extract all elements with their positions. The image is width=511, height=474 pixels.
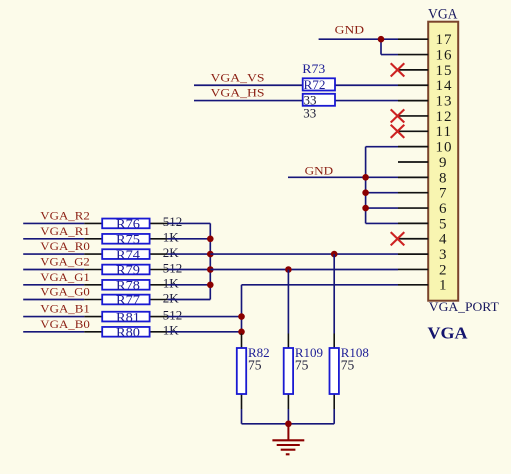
junction ground rail [285,421,292,428]
junction pin 7 [362,189,369,196]
wire R77 output [168,299,211,301]
pin 15 [398,63,453,79]
resistor R108 75 [330,334,369,410]
pin 4 [398,232,447,248]
svg-text:15: 15 [436,63,453,79]
wire R81 output [168,316,242,318]
junction G2 [207,266,214,273]
svg-text:R80: R80 [116,325,140,340]
svg-text:VGA_R2: VGA_R2 [40,208,90,222]
svg-text:75: 75 [295,357,309,372]
no-connect X pin 15 [391,63,405,76]
svg-text:14: 14 [436,78,453,94]
svg-text:VGA_R1: VGA_R1 [40,224,90,238]
pin 3 [398,247,447,263]
wire ground rail [242,423,335,425]
svg-text:VGA_G2: VGA_G2 [40,255,89,269]
resistor R76 512 [84,214,182,231]
svg-text:512: 512 [163,307,183,322]
wire to pin 7 [366,192,398,194]
svg-text:GND: GND [335,23,365,37]
wire VGA_HS to R72 [194,100,303,102]
svg-text:10: 10 [436,140,453,156]
svg-text:75: 75 [341,357,355,372]
pin 1 [398,278,447,294]
svg-text:512: 512 [163,214,183,229]
svg-text:1: 1 [439,278,447,294]
wire R76 output [168,222,211,224]
junction R108 tap [331,251,338,258]
pin 5 [398,216,447,232]
pin 11 [398,124,452,140]
svg-text:VGA_G0: VGA_G0 [40,285,89,299]
wire GND to pin 8 [288,176,398,178]
wire to pin 10 [366,146,398,148]
wire to pin 5 [366,222,398,224]
wire VGA_R1 to R75 [23,238,84,240]
wire R74 output [168,253,211,255]
svg-text:1K: 1K [163,323,180,338]
wire VGA_G1 to R78 [23,284,84,286]
svg-text:512: 512 [163,260,183,275]
svg-text:VGA_VS: VGA_VS [211,70,265,84]
wire R82 to ground rail [241,409,243,424]
pin 17 [398,32,453,48]
svg-text:2K: 2K [163,245,180,260]
wire VGA_VS to R73 [194,84,303,86]
junction R109 tap [285,266,292,273]
svg-text:VGA_B0: VGA_B0 [40,317,90,331]
svg-text:R81: R81 [116,309,140,324]
svg-text:3: 3 [439,247,447,263]
pin 9 [398,155,447,171]
pin 12 [398,109,453,125]
svg-text:VGA: VGA [428,323,469,342]
wire R109 to ground rail [287,409,289,424]
resistor R82 75 [237,334,270,410]
svg-text:4: 4 [439,232,447,248]
svg-text:6: 6 [439,201,447,217]
pin 14 [398,78,453,94]
wire VGA_G2 to R79 [23,269,84,271]
svg-text:VGA_PORT: VGA_PORT [429,299,499,314]
svg-text:2: 2 [439,262,447,278]
resistor R80 1K [84,323,179,340]
svg-text:VGA: VGA [428,7,458,23]
wire R79 output [168,269,211,271]
svg-text:R75: R75 [116,232,140,247]
pin 6 [398,201,447,217]
wire R75 output [168,238,211,240]
svg-text:R79: R79 [116,262,140,277]
wire R72 to pin 13 [335,100,398,102]
wire R108 to ground rail [333,409,335,424]
wire node to pin 3 [210,253,398,255]
svg-text:16: 16 [436,47,453,63]
svg-text:5: 5 [439,216,447,232]
wire node to pin 2 [210,269,398,271]
wire R108 tap vertical [333,254,335,333]
svg-text:11: 11 [436,124,452,140]
svg-text:9: 9 [439,155,447,171]
junction G1 [207,282,214,289]
svg-text:R78: R78 [116,278,140,293]
svg-text:33: 33 [303,106,316,121]
svg-text:GND: GND [305,163,334,177]
svg-text:75: 75 [248,357,262,372]
junction B0 [238,329,245,336]
wire vertical GND bus pins 10-5 [365,147,367,224]
connector VGA_PORT body [428,22,458,301]
svg-text:R73: R73 [302,61,325,76]
svg-text:R76: R76 [116,216,141,231]
junction R0 [207,251,214,258]
junction R1 [207,236,214,243]
wire R73 to pin 14 [335,84,398,86]
wire R109 tap vertical [287,270,289,334]
junction pin 17 GND [378,36,385,43]
svg-text:13: 13 [436,94,453,110]
pin 7 [398,186,447,202]
svg-text:17: 17 [436,32,453,48]
wire R80 output [168,331,242,333]
svg-text:R72: R72 [304,77,326,92]
svg-text:R77: R77 [116,292,141,307]
resistor R73 33 [302,61,335,121]
wire VGA_B1 to R81 [23,316,84,318]
junction pin 8 [362,174,369,181]
resistor R77 2K [84,290,179,307]
resistor R79 512 [84,260,182,277]
svg-text:R74: R74 [116,247,141,262]
wire VGA_G0 to R77 [23,299,84,301]
wire branch to pin 16 [381,39,398,54]
pin 2 [398,262,447,278]
resistor R75 1K [84,230,179,247]
resistor R109 75 [284,334,323,410]
svg-text:VGA_R0: VGA_R0 [40,239,90,253]
junction pin 6 [362,205,369,212]
svg-text:7: 7 [439,186,447,202]
wire VGA_R2 to R76 [23,222,84,224]
pin 16 [398,47,453,63]
resistor R78 1K [84,276,179,293]
resistor R74 2K [84,245,179,262]
no-connect X pin 11 [391,125,405,138]
no-connect X pin 4 [391,232,405,245]
svg-text:33: 33 [304,93,317,108]
svg-text:1K: 1K [163,276,180,291]
wire GND to pin 17 [319,38,398,40]
svg-text:2K: 2K [163,290,180,305]
pin 8 [398,170,447,186]
pin 10 [398,140,453,156]
svg-text:VGA_G1: VGA_G1 [40,270,89,284]
wire vertical blue bus [241,285,243,334]
svg-text:12: 12 [436,109,453,125]
wire to pin 6 [366,207,398,209]
svg-text:8: 8 [439,170,447,186]
junction B1 [238,313,245,320]
svg-text:1K: 1K [163,230,180,245]
ground [272,424,304,455]
pin 13 [398,94,453,110]
no-connect X pin 12 [391,109,405,122]
wire VGA_B0 to R80 [23,331,84,333]
wire VGA_R0 to R74 [23,253,84,255]
resistor R72 33 [303,77,335,107]
wire R78 output [168,284,211,286]
svg-text:VGA_B1: VGA_B1 [40,302,90,316]
resistor R81 512 [84,307,182,324]
svg-text:VGA_HS: VGA_HS [211,86,265,100]
wire vertical RG join [209,223,211,299]
wire blue node to pin 1 [242,284,399,286]
